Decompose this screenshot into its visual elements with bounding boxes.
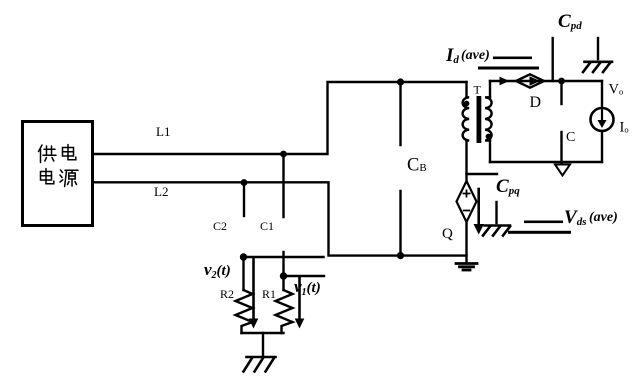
svg-text:R2: R2: [220, 287, 234, 301]
svg-text:C1: C1: [260, 219, 274, 233]
svg-text:C: C: [566, 130, 575, 145]
svg-text:Q: Q: [442, 226, 453, 242]
svg-text:(ave): (ave): [461, 48, 490, 63]
svg-text:L2: L2: [154, 184, 168, 199]
svg-text:v1(t): v1(t): [294, 277, 321, 298]
svg-text:T: T: [474, 83, 482, 97]
svg-text:D: D: [530, 94, 542, 111]
svg-text:R1: R1: [262, 287, 276, 301]
svg-text:(ave): (ave): [589, 210, 618, 225]
svg-text:v2(t): v2(t): [204, 260, 231, 281]
svg-text:L1: L1: [156, 124, 170, 139]
svg-text:C2: C2: [213, 219, 227, 233]
